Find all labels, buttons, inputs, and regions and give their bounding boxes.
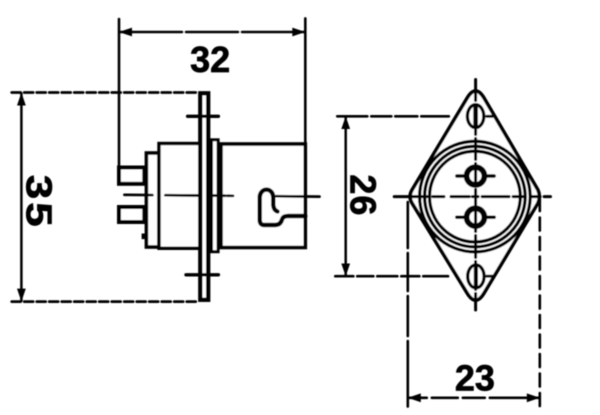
front view: middle circle — [425, 146, 526, 247]
dimension 32 extension line right — [304, 18, 307, 144]
side view: pin 1 (upper) — [119, 168, 144, 184]
arrowhead bottom of 35 — [17, 289, 26, 302]
side view: key notch — [143, 235, 145, 238]
front view: diamond flange — [410, 91, 539, 300]
front view: outer circle — [420, 141, 531, 252]
side view: collar behind flange — [212, 140, 219, 252]
side view: pin 2 (lower) — [119, 207, 144, 222]
front view: bottom mounting hole — [468, 265, 484, 288]
front view: bottom hole slot tick — [474, 267, 478, 286]
dimension 35 top extension (dashed) — [12, 91, 197, 94]
arrowhead bottom of 26 — [341, 264, 350, 277]
dimension 32 line — [120, 31, 304, 34]
side view: main body — [221, 144, 305, 248]
arrowhead right of 23 — [527, 393, 540, 402]
svg-text:32: 32 — [190, 39, 230, 80]
side view: rear step block — [146, 153, 159, 247]
arrowhead left of 32 — [119, 28, 132, 37]
dimension 35 bottom extension (dashed) — [12, 300, 197, 303]
dimension 26 bottom right tick — [487, 275, 494, 278]
dimension 26 bottom extension — [335, 275, 448, 278]
dimension 23 line — [409, 396, 539, 399]
front view: pin 1 ring — [467, 167, 485, 185]
dimension 26 line — [344, 117, 347, 275]
svg-text:26: 26 — [343, 174, 384, 216]
arrowhead top of 26 — [341, 116, 350, 129]
arrowhead right of 32 — [292, 28, 305, 37]
dimension 23 left extension — [406, 202, 409, 407]
front view: pin 2 ring — [467, 208, 485, 226]
side view: lower mounting hole tick — [186, 273, 218, 276]
dimension 26 top right tick — [487, 115, 493, 118]
dimension 23 right extension (dashed) — [538, 198, 541, 407]
front view: pin 1 side ticks — [457, 174, 494, 177]
side view: upper mounting hole tick — [188, 115, 219, 118]
front view: pin 2 side ticks — [457, 215, 494, 218]
front view: top mounting hole — [467, 105, 483, 128]
side view: centre line — [124, 195, 319, 197]
front view: inner circle — [430, 151, 521, 242]
front view: top hole slot tick — [473, 107, 478, 127]
side view: solder lug hook — [260, 190, 306, 225]
front view: horizontal centre line — [394, 195, 550, 198]
arrowhead top of 35 — [17, 93, 26, 106]
arrowhead left of 23 — [408, 393, 421, 402]
side view: rear housing — [159, 144, 200, 249]
dimension 35 line — [20, 94, 23, 301]
svg-text:23: 23 — [455, 358, 495, 399]
dimension 32 extension line left — [118, 19, 121, 168]
front view: vertical centre line — [474, 80, 477, 311]
side view: mounting flange plate — [200, 93, 208, 299]
dimension 26 top extension — [337, 115, 449, 118]
svg-text:35: 35 — [18, 175, 58, 230]
